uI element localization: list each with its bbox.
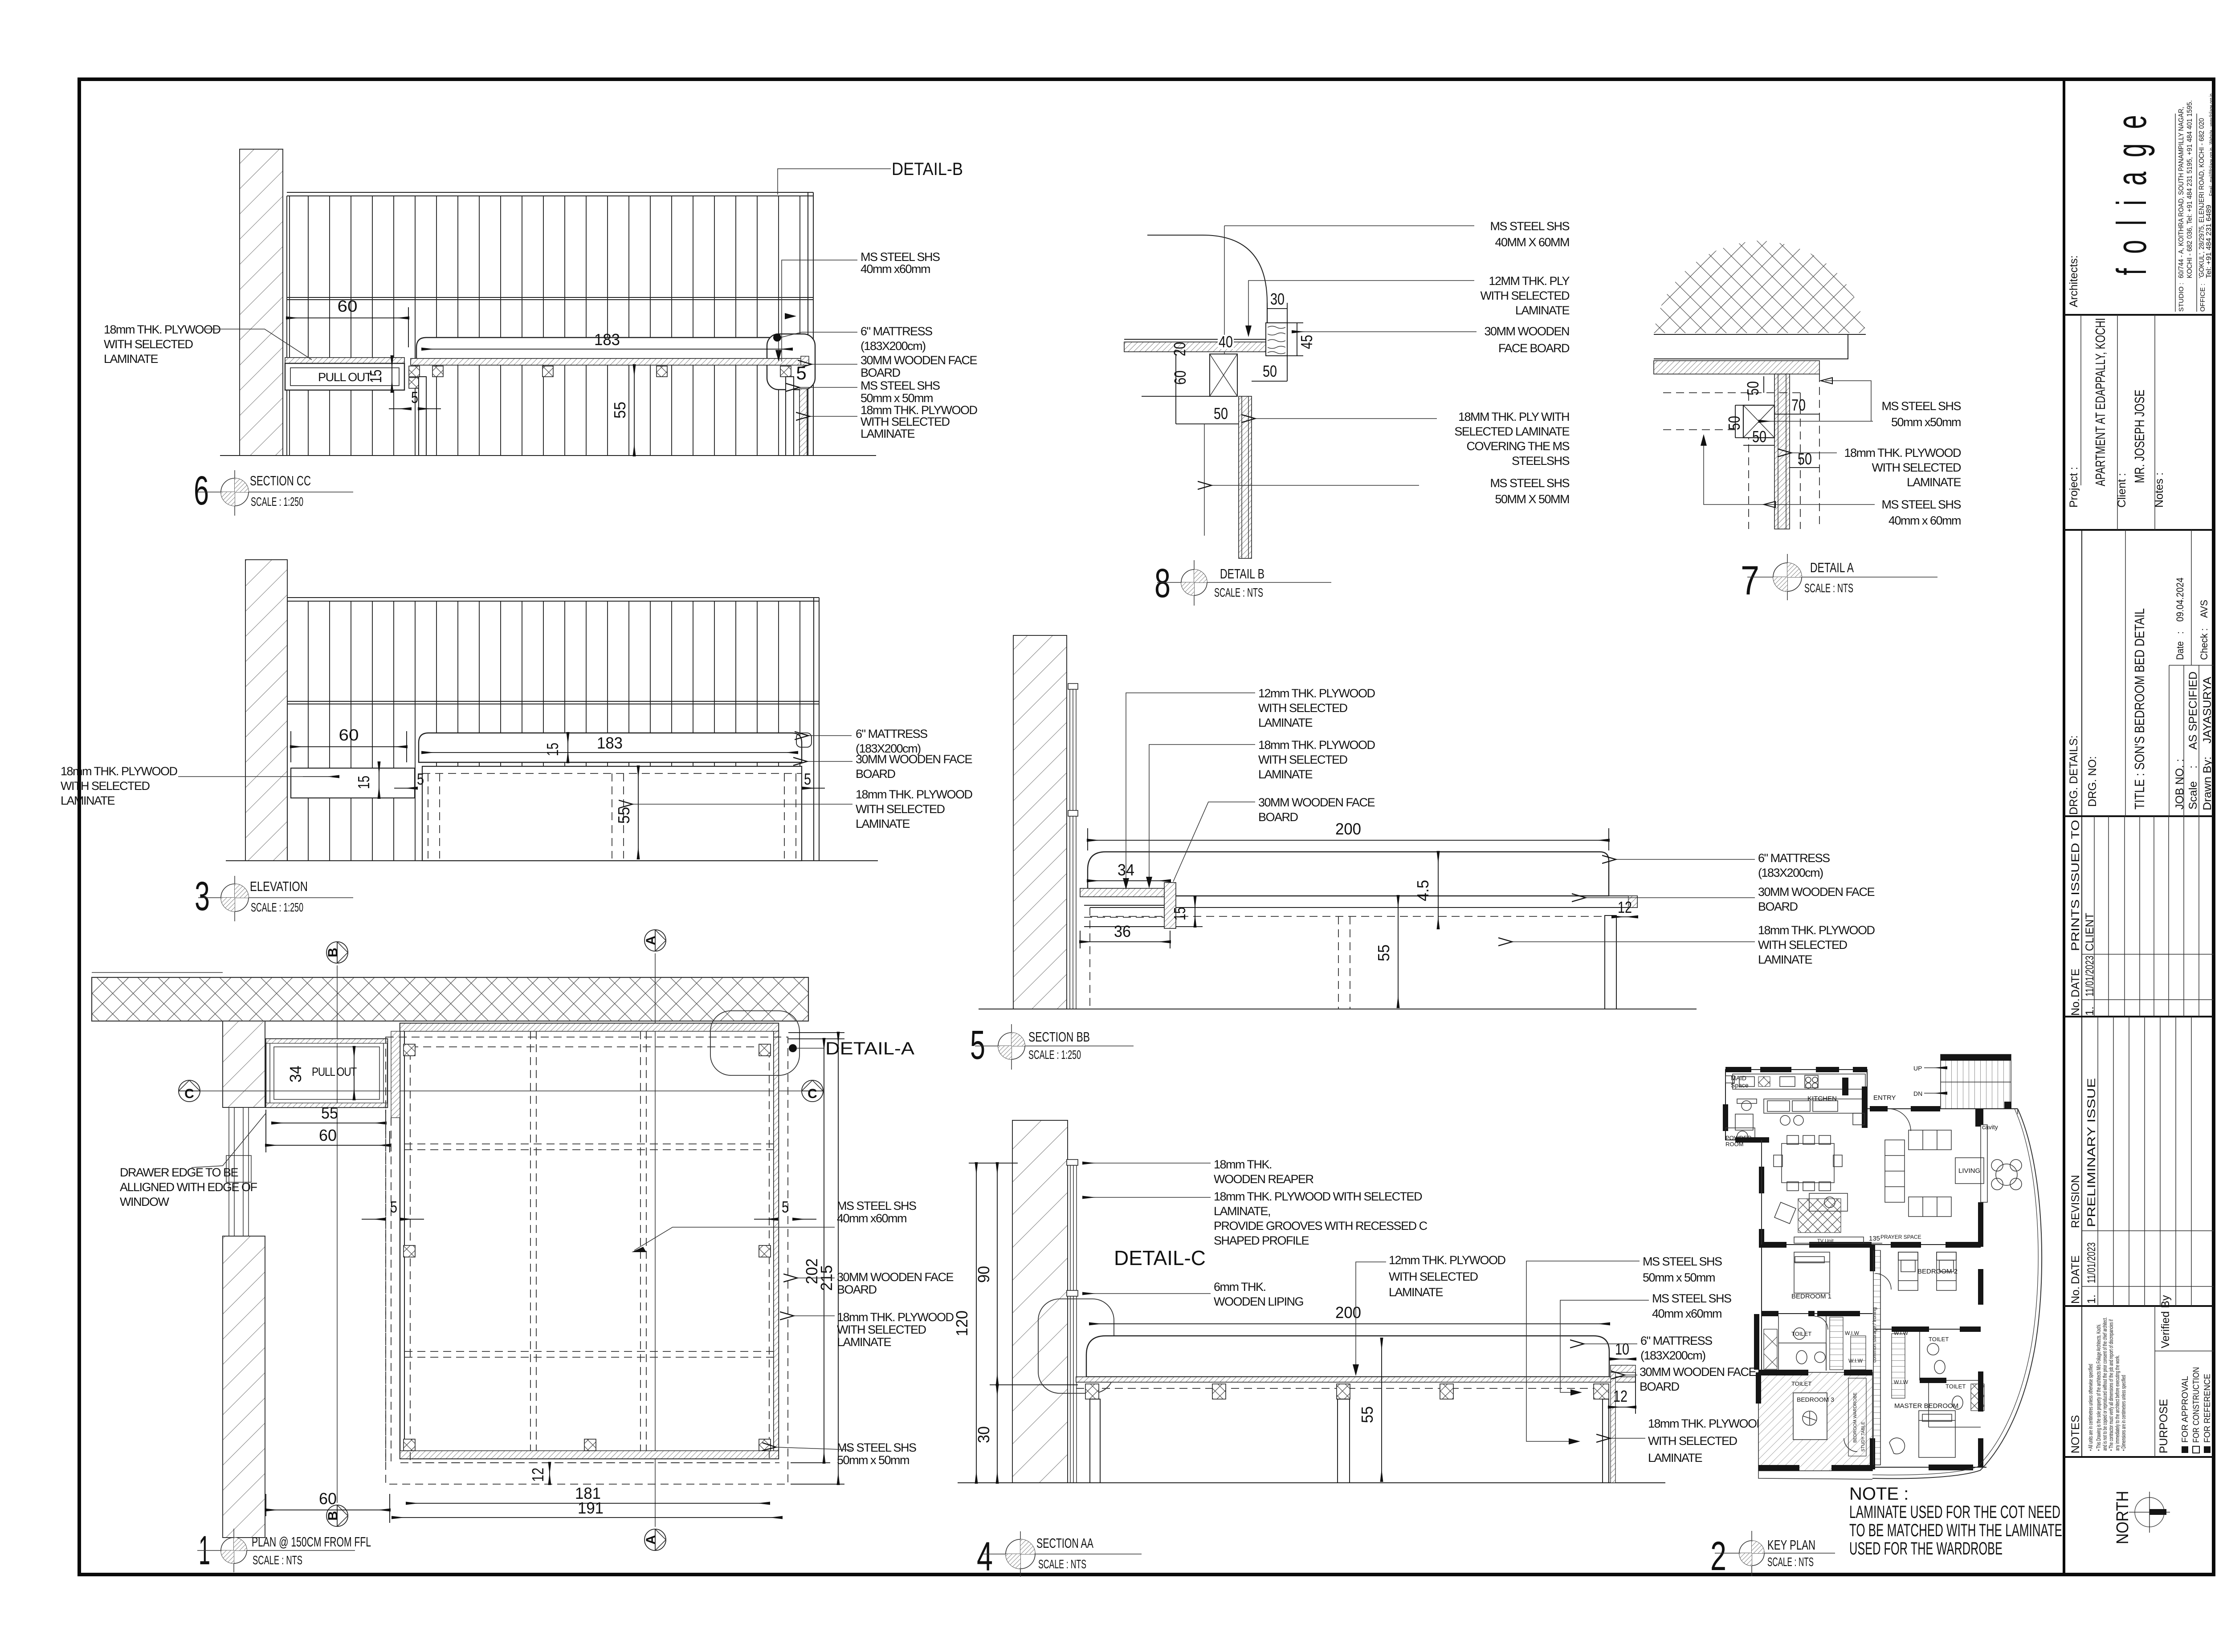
kitchen lower counter — [1764, 1099, 1865, 1113]
dim 183 (mattress length) — [422, 349, 792, 350]
svg-text:SCALE : NTS: SCALE : NTS — [1804, 581, 1853, 595]
svg-text:18mm THK. PLYWOOD WITH SELECTE: 18mm THK. PLYWOOD WITH SELECTED — [1214, 1190, 1422, 1203]
leader — [1526, 1261, 1640, 1441]
dim 5 (gap drawer to leg) — [389, 408, 411, 409]
floor line — [220, 455, 876, 456]
dim 50 left of box — [1735, 405, 1736, 438]
svg-text:PRELIMINARY ISSUE: PRELIMINARY ISSUE — [2085, 1078, 2098, 1227]
svg-text:12: 12 — [1618, 898, 1632, 916]
svg-text:30: 30 — [975, 1426, 993, 1443]
svg-text:6mm THK.: 6mm THK. — [1214, 1280, 1266, 1294]
svg-text:SCALE : 1:250: SCALE : 1:250 — [251, 900, 303, 914]
svg-text:50mm x 50mm: 50mm x 50mm — [861, 391, 933, 405]
dim 30 — [997, 1385, 998, 1483]
dashed grid horizontals — [404, 1143, 774, 1144]
svg-text:MS STEEL SHS: MS STEEL SHS — [1490, 476, 1569, 490]
svg-text:5: 5 — [417, 770, 424, 788]
svg-text:LAMINATE,: LAMINATE, — [1214, 1204, 1270, 1218]
pull-out drawer top board — [285, 358, 404, 363]
wall face line above band — [92, 972, 223, 973]
svg-text:55: 55 — [611, 402, 629, 419]
svg-text:183: 183 — [594, 330, 620, 349]
svg-text:WOODEN REAPER: WOODEN REAPER — [1214, 1172, 1314, 1186]
dim 183 — [422, 752, 797, 753]
svg-text:200: 200 — [1335, 1303, 1361, 1322]
dim 15 mattress — [567, 733, 568, 762]
bedroom3 walls black — [1758, 1370, 1808, 1375]
leader — [799, 387, 857, 388]
dim 34 — [1088, 880, 1170, 881]
svg-text:• The contractor must verify a: • The contractor must verify all dimensi… — [2108, 1319, 2114, 1451]
left leg — [1090, 1399, 1100, 1483]
stair arrows — [1924, 1067, 1946, 1068]
leader — [1083, 1163, 1211, 1164]
floor line — [958, 1482, 1665, 1483]
dashed grid verticals — [530, 1031, 531, 1451]
svg-text:WITH SELECTED: WITH SELECTED — [856, 802, 945, 816]
kitchen block outline — [1725, 1070, 1867, 1128]
mattress front — [419, 733, 802, 762]
bottom boundary line — [1758, 1471, 1872, 1479]
bedroom3 highlighted room (hatched) — [1758, 1372, 1872, 1471]
svg-text:PULL OUT: PULL OUT — [312, 1065, 357, 1078]
mattress corner outline — [1147, 235, 1267, 342]
leader — [192, 1113, 266, 1168]
svg-text:No.: No. — [2069, 1286, 2082, 1304]
bottom wall — [1872, 1467, 1986, 1468]
leader — [1293, 331, 1477, 332]
svg-text:12mm THK. PLYWOOD: 12mm THK. PLYWOOD — [1389, 1253, 1506, 1267]
svg-text:Verified By: Verified By — [2159, 1295, 2172, 1348]
dim 60 left — [1175, 354, 1176, 396]
inner frame lines — [404, 1031, 405, 1451]
lining joint cap — [1067, 1290, 1078, 1296]
platform line — [1170, 895, 1628, 896]
purpose divider — [2154, 1306, 2155, 1457]
bedside ledge board (hatched) — [1080, 888, 1172, 897]
dim 60 bottom — [266, 1510, 390, 1510]
svg-text:LAMINATE: LAMINATE — [1515, 304, 1570, 317]
svg-text:50: 50 — [1798, 450, 1812, 468]
dim 50 top — [1763, 376, 1764, 393]
north symbol — [2135, 1497, 2164, 1527]
svg-text:MS STEEL SHS: MS STEEL SHS — [837, 1199, 916, 1213]
hatch block small left — [1764, 1329, 1777, 1369]
TV unit — [1794, 1237, 1864, 1243]
svg-text:NORTH: NORTH — [2113, 1491, 2132, 1544]
headboard top rails — [287, 192, 813, 193]
svg-text:MS STEEL SHS: MS STEEL SHS — [1652, 1292, 1731, 1305]
headboard left edge — [287, 598, 288, 861]
svg-text:PLAN @ 150CM FROM FFL: PLAN @ 150CM FROM FFL — [252, 1534, 371, 1550]
svg-text:TITLE : SON'S BEDROOM BED DETA: TITLE : SON'S BEDROOM BED DETAIL — [2132, 608, 2147, 810]
svg-text:KITCHEN: KITCHEN — [1807, 1095, 1837, 1103]
wiw right strips — [1892, 1334, 1905, 1398]
section marker C left — [179, 1080, 200, 1102]
svg-text:BOARD: BOARD — [1758, 900, 1798, 913]
leader to box — [1759, 421, 1873, 422]
svg-text:• Dimensions are in centimeter: • Dimensions are in centimeters unless s… — [2120, 1375, 2127, 1451]
dim 55 — [638, 766, 639, 859]
svg-text:135: 135 — [1869, 1235, 1880, 1242]
leader — [1616, 859, 1755, 860]
dashed line below platform — [1076, 1388, 1603, 1389]
svg-text:W.I.W: W.I.W — [1894, 1330, 1909, 1336]
dim 10 — [1611, 1359, 1636, 1359]
bed platform board (ply with laminate, hatched) — [411, 358, 807, 365]
ply column vertical (hatched) — [1239, 396, 1252, 558]
face board strip bottom — [400, 1451, 779, 1459]
svg-text:BOARD: BOARD — [1640, 1380, 1680, 1393]
dining table — [1782, 1143, 1834, 1183]
svg-text:'GOKUL', 28/2975, ELENJERI ROA: 'GOKUL', 28/2975, ELENJERI ROAD, KOCHI -… — [2198, 118, 2206, 278]
bed box front (white) — [422, 766, 802, 861]
svg-text:LAMINATE: LAMINATE — [1648, 1451, 1702, 1465]
leader — [1248, 281, 1474, 332]
dim 34 (drawer depth) — [354, 1047, 355, 1099]
middle leg — [1338, 1399, 1350, 1483]
top wall band (crosshatched) — [92, 977, 808, 1021]
dim 5 left — [394, 788, 417, 789]
svg-text:WITH SELECTED: WITH SELECTED — [61, 779, 150, 793]
svg-text:18mm THK.: 18mm THK. — [1214, 1158, 1272, 1171]
svg-text:BEDROOM WARDROBE: BEDROOM WARDROBE — [1853, 1392, 1858, 1443]
svg-text:15: 15 — [543, 743, 562, 756]
DETAIL-C bubble — [1038, 1299, 1114, 1393]
svg-text:MS STEEL SHS: MS STEEL SHS — [1490, 220, 1569, 233]
svg-text:A: A — [644, 1535, 658, 1545]
svg-text:SECTION CC: SECTION CC — [250, 473, 311, 488]
svg-text:LAMINATE: LAMINATE — [1758, 953, 1812, 966]
svg-text:191: 191 — [578, 1499, 604, 1517]
svg-text:34: 34 — [286, 1066, 305, 1082]
wooden reaper block top — [1067, 1160, 1078, 1165]
headboard right edge panel — [808, 192, 808, 456]
svg-text:DATE: DATE — [2069, 968, 2082, 997]
svg-text:TV Unit: TV Unit — [1817, 1238, 1834, 1244]
leader — [1586, 897, 1755, 898]
svg-text:6" MATTRESS: 6" MATTRESS — [1758, 851, 1830, 865]
dim 12 right — [1612, 916, 1637, 917]
section line C horizontal — [200, 1090, 802, 1091]
living top-right walls — [1980, 1109, 1981, 1247]
mid wall (living / bedrooms) — [1762, 1244, 1981, 1245]
right ply hatch strip — [774, 1031, 779, 1451]
svg-text:55: 55 — [1375, 944, 1393, 961]
dim 70 — [1774, 414, 1819, 415]
svg-text:20: 20 — [1171, 342, 1189, 356]
svg-text:WITH SELECTED: WITH SELECTED — [1648, 1434, 1738, 1448]
svg-text:5: 5 — [782, 1198, 789, 1216]
svg-text:70: 70 — [1791, 396, 1806, 414]
svg-text:SCALE : 1:250: SCALE : 1:250 — [251, 495, 303, 509]
svg-text:200: 200 — [1335, 820, 1361, 838]
svg-text:50: 50 — [1744, 381, 1762, 395]
corridor wall — [1873, 1250, 1880, 1465]
dim 60 below drawer — [266, 1145, 390, 1146]
svg-text:SCALE : NTS: SCALE : NTS — [253, 1553, 302, 1567]
svg-text:KEY PLAN: KEY PLAN — [1767, 1537, 1815, 1553]
svg-text:Architects:: Architects: — [2068, 255, 2080, 307]
dim 200 — [1088, 840, 1609, 841]
svg-text:No.: No. — [2069, 998, 2082, 1016]
platform top line — [1124, 339, 1267, 340]
dim 120 — [976, 1163, 977, 1483]
left wall upper segment — [223, 1021, 265, 1107]
leader — [808, 735, 852, 736]
steel SHS boxes below platform — [409, 366, 791, 388]
svg-text:STEELSHS: STEELSHS — [1512, 454, 1570, 468]
steel SHS 50x50 box — [1743, 405, 1774, 438]
svg-text:11/01/2023: 11/01/2023 — [2084, 956, 2096, 997]
svg-text:40mm x60mm: 40mm x60mm — [861, 262, 930, 276]
left ply hatch strip (head side) — [391, 1031, 400, 1118]
svg-text:(183X200cm): (183X200cm) — [861, 339, 926, 353]
svg-text:WITH SELECTED: WITH SELECTED — [1758, 938, 1848, 952]
svg-text:cavity: cavity — [1982, 1123, 1998, 1131]
svg-text:PURPOSE: PURPOSE — [2158, 1399, 2170, 1453]
svg-text:and is not to be copied or rep: and is not to be copied or reproduced wi… — [2101, 1317, 2108, 1451]
svg-text:40mm x60mm: 40mm x60mm — [1652, 1307, 1721, 1320]
leader — [1356, 1262, 1386, 1371]
floor line — [979, 1009, 1697, 1009]
svg-text:40: 40 — [1219, 333, 1233, 351]
dashed outline below bed — [400, 1462, 779, 1463]
dim 50 right lower — [1790, 467, 1819, 468]
svg-text:MS STEEL SHS: MS STEEL SHS — [861, 379, 940, 392]
purpose checkboxes — [2182, 1446, 2188, 1453]
dim 15 (drawer height) — [392, 356, 392, 392]
svg-text:12MM THK. PLY: 12MM THK. PLY — [1489, 274, 1570, 288]
svg-text:Client :: Client : — [2116, 473, 2128, 508]
svg-text:DRG. DETAILS:: DRG. DETAILS: — [2068, 735, 2080, 815]
outer dashed rect — [386, 1037, 788, 1484]
face board end hatched — [1611, 1365, 1636, 1372]
svg-text:SCALE : NTS: SCALE : NTS — [1038, 1557, 1086, 1571]
svg-text:4.5: 4.5 — [1414, 880, 1432, 901]
face board strip top — [400, 1023, 779, 1031]
svg-text:MS STEEL SHS: MS STEEL SHS — [861, 250, 940, 264]
svg-text:FOR REFERENCE: FOR REFERENCE — [2203, 1374, 2212, 1443]
svg-text:SCALE : 1:250: SCALE : 1:250 — [1028, 1048, 1081, 1062]
svg-text:BOARD: BOARD — [837, 1283, 877, 1296]
svg-text:WITH SELECTED: WITH SELECTED — [1480, 289, 1570, 302]
left wall lower segment — [223, 1236, 265, 1538]
wall (section AA, hatched) — [1012, 1120, 1068, 1483]
floor line — [226, 860, 878, 861]
svg-text:40mm x 60mm: 40mm x 60mm — [1888, 514, 1961, 527]
dim 36 — [1080, 941, 1170, 942]
svg-text:WITH SELECTED: WITH SELECTED — [1258, 753, 1348, 766]
steel SHS boxes — [1085, 1384, 1609, 1399]
project row line — [2080, 315, 2081, 485]
svg-text:WITH SELECTED: WITH SELECTED — [837, 1323, 926, 1336]
bed frame outer (plan) — [400, 1023, 779, 1459]
left outer wall — [1725, 1128, 1762, 1372]
svg-text:183: 183 — [597, 734, 623, 752]
dashed legs — [428, 773, 428, 859]
notch corner — [1819, 334, 1848, 359]
svg-text:LAMINATE: LAMINATE — [104, 352, 158, 366]
svg-text:7: 7 — [1741, 558, 1759, 603]
svg-text:18mm THK. PLYWOOD: 18mm THK. PLYWOOD — [1844, 446, 1961, 460]
leader long — [632, 804, 852, 805]
revision table row lines — [2098, 1017, 2191, 1306]
dim 215 right — [838, 1033, 839, 1484]
section marker B top — [326, 942, 348, 963]
leader — [1512, 941, 1755, 942]
wall bottom edge line — [1654, 334, 1866, 335]
svg-text:60: 60 — [339, 726, 359, 744]
svg-text:30MM WOODEN FACE: 30MM WOODEN FACE — [1758, 885, 1875, 899]
right bed leg — [786, 377, 794, 456]
svg-text:Scale : AS SPECIFIED: Scale : AS SPECIFIED — [2187, 671, 2199, 810]
svg-text:30MM WOODEN: 30MM WOODEN — [1484, 325, 1569, 338]
svg-text:JOB NO. :: JOB NO. : — [2174, 759, 2186, 810]
svg-text:BOARD: BOARD — [861, 366, 901, 379]
svg-text:2: 2 — [1710, 1534, 1726, 1579]
svg-text:5: 5 — [970, 1022, 985, 1068]
dim 5 right — [803, 788, 825, 789]
dim 50 lower left — [1176, 423, 1239, 424]
svg-text:MS STEEL SHS: MS STEEL SHS — [1881, 498, 1961, 511]
svg-text:PROVIDE GROOVES WITH RECESSED: PROVIDE GROOVES WITH RECESSED C — [1214, 1219, 1428, 1233]
svg-text:30: 30 — [1270, 290, 1285, 308]
svg-text:30MM WOODEN FACE: 30MM WOODEN FACE — [837, 1270, 954, 1284]
leader — [807, 761, 852, 762]
svg-text:common storage / ironing: common storage / ironing — [1872, 1307, 1877, 1363]
svg-text:4: 4 — [977, 1534, 993, 1579]
svg-text:LAMINATE: LAMINATE — [61, 794, 115, 807]
svg-text:60: 60 — [338, 297, 358, 315]
left bed leg — [419, 377, 426, 456]
svg-text:C: C — [808, 1086, 817, 1101]
svg-text:15: 15 — [367, 370, 385, 383]
staircase block — [1941, 1054, 2011, 1109]
svg-text:60: 60 — [1171, 370, 1189, 385]
dashed platform line — [1090, 916, 1605, 917]
ledge open box — [1084, 905, 1167, 927]
svg-text:FOR APPROVAL: FOR APPROVAL — [2181, 1376, 2190, 1443]
svg-text:POWDER: POWDER — [1725, 1135, 1752, 1141]
left dashed continuation — [385, 1118, 386, 1463]
svg-text:USED FOR THE WARDROBE: USED FOR THE WARDROBE — [1849, 1539, 2003, 1558]
svg-text:SECTION AA: SECTION AA — [1036, 1535, 1093, 1551]
svg-text:B: B — [326, 1511, 340, 1521]
leader with up arrow — [1704, 439, 1875, 505]
svg-text:BEDROOM 2: BEDROOM 2 — [1917, 1268, 1958, 1275]
dim 55 below drawer — [272, 1123, 386, 1123]
leader — [1083, 1197, 1211, 1198]
face board end hatched — [1628, 896, 1637, 907]
svg-text:(183X200cm): (183X200cm) — [1640, 1349, 1705, 1362]
svg-text:BEDROOM 1: BEDROOM 1 — [1791, 1293, 1831, 1300]
dim 55 — [1381, 1339, 1382, 1481]
svg-text:50mm x50mm: 50mm x50mm — [1891, 415, 1961, 429]
svg-text:FACE BOARD: FACE BOARD — [1498, 342, 1570, 355]
svg-text:18mm THK. PLYWOOD: 18mm THK. PLYWOOD — [856, 788, 973, 801]
svg-text:BOARD: BOARD — [1258, 810, 1298, 824]
leader — [1625, 1375, 1637, 1375]
svg-text:36: 36 — [1114, 922, 1131, 940]
section marker C right — [802, 1080, 823, 1102]
svg-text:SCALE : NTS: SCALE : NTS — [1767, 1555, 1814, 1569]
leader — [782, 260, 857, 362]
svg-text:LAMINATE: LAMINATE — [1907, 476, 1961, 489]
toilets left — [1778, 1316, 1826, 1371]
svg-text:TOILET: TOILET — [1791, 1380, 1811, 1387]
svg-text:STUDIO :: STUDIO : — [2178, 283, 2185, 312]
extension ticks — [969, 1163, 1018, 1164]
leader diagonal — [634, 1227, 835, 1250]
svg-text:MR. JOSEPH JOSE: MR. JOSEPH JOSE — [2132, 390, 2147, 483]
svg-text:55: 55 — [1358, 1406, 1376, 1423]
dim 50 upper right — [1252, 381, 1287, 382]
svg-text:SECTION BB: SECTION BB — [1028, 1029, 1090, 1045]
svg-text:30MM WOODEN FACE: 30MM WOODEN FACE — [1258, 796, 1375, 809]
notes row line — [2154, 315, 2155, 530]
svg-text:5: 5 — [411, 388, 418, 407]
laminate board strip (hatched) — [1654, 361, 1819, 374]
wiw hatched wardrobes left — [1830, 1317, 1843, 1370]
leader with dot — [780, 332, 857, 338]
svg-text:30MM WOODEN FACE: 30MM WOODEN FACE — [1640, 1365, 1756, 1379]
svg-text:ALLIGNED WITH EDGE OF: ALLIGNED WITH EDGE OF — [120, 1180, 257, 1194]
svg-text:ENTRY: ENTRY — [1873, 1094, 1896, 1102]
bed box sides — [1089, 907, 1090, 1009]
svg-text:Check : AVS: Check : AVS — [2198, 600, 2210, 660]
wall ply lining upper — [1068, 684, 1078, 689]
svg-text:Tel: +91 484 231 6489: Tel: +91 484 231 6489 — [2205, 205, 2213, 278]
svg-text:DETAIL-A: DETAIL-A — [825, 1039, 914, 1058]
svg-text:6" MATTRESS: 6" MATTRESS — [1640, 1334, 1712, 1347]
wall (elevation, hatched) — [245, 560, 287, 861]
svg-text:NOTE :: NOTE : — [1849, 1484, 1909, 1504]
svg-text:SCALE : NTS: SCALE : NTS — [1214, 586, 1263, 599]
dim 200 — [1090, 1323, 1609, 1324]
right laminate panel — [1611, 1372, 1615, 1483]
svg-text:3: 3 — [195, 874, 210, 919]
svg-text:MASTER BEDROOM: MASTER BEDROOM — [1894, 1402, 1958, 1410]
mattress (6in mattress side view) — [416, 338, 797, 359]
svg-text:50: 50 — [1214, 404, 1228, 423]
round balcony table — [1996, 1164, 2017, 1185]
svg-text:Drawn By: JAYASURYA: Drawn By: JAYASURYA — [2201, 677, 2214, 810]
svg-text:Email : mail@foliage.org.in ,: Email : mail@foliage.org.in , Website : … — [2208, 94, 2215, 196]
svg-text:WINDOW: WINDOW — [120, 1195, 169, 1208]
leader — [1083, 1293, 1211, 1294]
bedroom2 right wall — [1978, 1269, 1983, 1305]
drawer hatched edges — [266, 1039, 387, 1043]
leader — [1791, 452, 1837, 453]
wall corner blob (crosshatched) — [1654, 240, 1866, 333]
face board lines — [422, 762, 802, 763]
platform board (hatched strip) — [1124, 342, 1267, 352]
svg-text:6: 6 — [194, 468, 209, 513]
entry wall — [1867, 1108, 2018, 1109]
svg-text:1.: 1. — [2085, 1294, 2098, 1304]
svg-text:B: B — [326, 948, 340, 957]
DETAIL-A bubble — [710, 1011, 799, 1075]
svg-text:CLIENT: CLIENT — [2084, 913, 2096, 951]
svg-text:6" MATTRESS: 6" MATTRESS — [856, 727, 927, 741]
wall (section BB, hatched) — [1013, 635, 1067, 1009]
dim 202 right — [824, 1039, 824, 1463]
carpet + sofa group — [1798, 1199, 1841, 1233]
lower edge band line — [1654, 358, 1819, 359]
svg-text:50mm x 50mm: 50mm x 50mm — [1643, 1271, 1715, 1284]
svg-text:18mm THK. PLYWOOD: 18mm THK. PLYWOOD — [1758, 924, 1875, 937]
